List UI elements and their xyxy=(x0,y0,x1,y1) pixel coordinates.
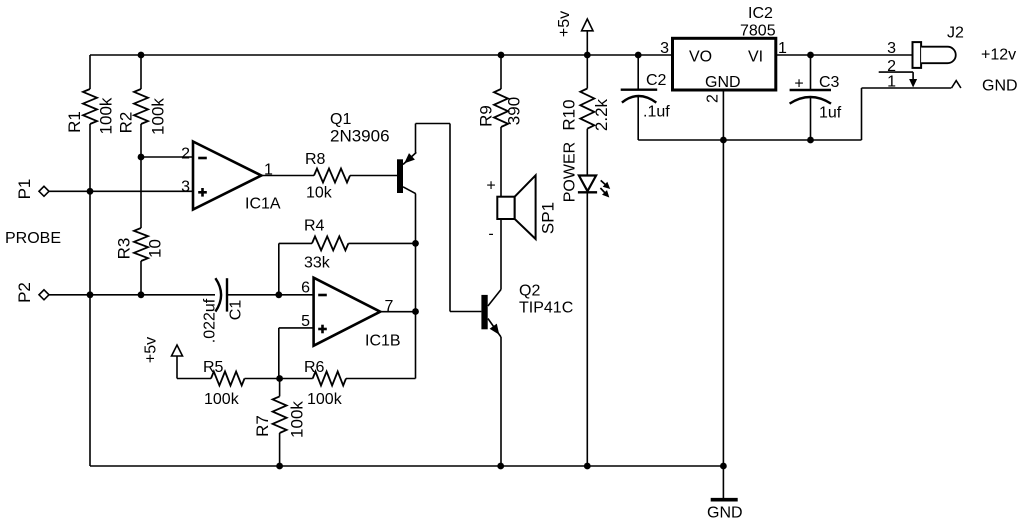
resistor R2 xyxy=(134,89,148,124)
transistor Q1 base bar xyxy=(397,159,403,193)
label 7805 xyxy=(740,23,776,40)
svg-text:C1: C1 xyxy=(228,300,245,321)
value 2.2k (R10) xyxy=(592,98,611,131)
svg-text:2.2k: 2.2k xyxy=(592,98,611,131)
pin GND label (IC2) xyxy=(705,74,741,91)
pin2 to pin1 arrow xyxy=(909,72,917,87)
wire P2 to C1 xyxy=(49,294,215,296)
capacitor C1 straight plate xyxy=(226,278,228,311)
svg-text:R2: R2 xyxy=(117,112,136,134)
label IC1A xyxy=(245,196,281,213)
pin 5 label (IC1B) xyxy=(301,313,310,330)
speaker SP1 horn xyxy=(515,175,536,239)
pin 3 label (J2) xyxy=(887,40,896,57)
wire R4 right lead xyxy=(348,242,415,244)
wire J2 pin1 drop xyxy=(861,88,863,140)
wire R8 to Q1 base xyxy=(350,175,397,177)
connector mate caret xyxy=(952,81,961,88)
label PROBE xyxy=(5,230,61,247)
connector P1 diamond xyxy=(39,186,49,196)
svg-text:2N3906: 2N3906 xyxy=(330,127,390,146)
label +12v xyxy=(981,47,1016,64)
wire P1 to IC1A pin3 xyxy=(49,190,193,192)
svg-text:6: 6 xyxy=(301,280,310,297)
transistor Q2 emitter xyxy=(488,319,501,338)
label R9 xyxy=(477,105,496,127)
transistor Q1 emitter xyxy=(403,152,416,164)
value .022uf (C1) xyxy=(202,298,219,343)
junction top rail C2 xyxy=(635,52,642,59)
wire R7 top lead xyxy=(279,379,281,397)
svg-text:R9: R9 xyxy=(477,105,496,127)
wire IC1A pin2 xyxy=(141,156,193,158)
wire R6 right lead xyxy=(346,378,416,380)
svg-text:R6: R6 xyxy=(304,359,325,376)
pin 6 label (IC1B) xyxy=(301,280,310,297)
svg-text:Q2: Q2 xyxy=(519,283,540,300)
junction LED/bottom rail xyxy=(584,463,591,470)
wire IC1B output xyxy=(380,311,415,313)
svg-text:33k: 33k xyxy=(304,255,331,272)
svg-text:P1: P1 xyxy=(15,179,34,200)
resistor R7 xyxy=(273,396,287,433)
junction R2/IC1A pin2 xyxy=(138,154,145,161)
junction P2/left rail xyxy=(87,291,94,298)
resistor R6 xyxy=(313,372,346,386)
LED emission arrow 2 xyxy=(600,188,609,198)
value 100k (R1) xyxy=(97,97,116,134)
svg-text:R1: R1 xyxy=(65,111,84,133)
junction top rail R10 xyxy=(584,52,591,59)
wire Q1 collector bus xyxy=(415,194,417,379)
wire Q2 emitter down xyxy=(500,337,502,466)
LED emission arrow 1 xyxy=(601,180,611,189)
svg-text:10: 10 xyxy=(146,239,165,258)
label POWER xyxy=(562,142,579,202)
wire left rail lower xyxy=(89,191,91,466)
wire IC1B pin5 xyxy=(279,327,314,329)
svg-text:GND: GND xyxy=(705,74,741,91)
label 2N3906 xyxy=(330,127,390,146)
pin 1 label (IC1A) xyxy=(264,162,273,179)
svg-text:Q1: Q1 xyxy=(330,111,351,128)
transistor Q2 base bar xyxy=(481,295,487,329)
svg-text:POWER: POWER xyxy=(562,142,579,202)
wire pin2 line xyxy=(879,71,913,73)
pin 3 label (IC2) xyxy=(660,40,669,57)
junction C3 top xyxy=(807,52,814,59)
label R2 xyxy=(117,112,136,134)
junction IC1B out/collector xyxy=(412,308,419,315)
svg-text:TIP41C: TIP41C xyxy=(519,300,573,317)
junction gnd/bottom rail xyxy=(720,463,727,470)
label R8 xyxy=(305,151,326,168)
svg-text:+5v: +5v xyxy=(143,337,160,363)
wire right gnd rail xyxy=(638,139,861,141)
svg-text:1uf: 1uf xyxy=(819,105,842,122)
pin 3 label (IC1A) xyxy=(181,179,190,196)
plus sign IC1A xyxy=(198,188,207,197)
pin 2 label (J2) xyxy=(887,58,896,75)
svg-text:C3: C3 xyxy=(819,74,840,91)
node P2 label xyxy=(15,282,34,303)
transistor Q2 collector xyxy=(488,290,501,307)
wire R9 top lead xyxy=(500,55,502,89)
label R1 xyxy=(65,111,84,133)
svg-text:IC1A: IC1A xyxy=(245,196,281,213)
transistor Q1 emitter arrow xyxy=(404,153,415,163)
wire R10 top lead xyxy=(586,55,588,89)
value 100k (R6) xyxy=(307,391,343,408)
wire loop top xyxy=(416,123,451,125)
wire bottom ground rail xyxy=(90,465,723,467)
wire R10 to LED xyxy=(586,129,588,176)
transistor Q2 emitter arrow xyxy=(490,324,500,335)
minus sign IC1A xyxy=(198,157,207,160)
svg-text:SP1: SP1 xyxy=(539,202,558,234)
junction GND pin/gnd rail xyxy=(720,137,727,144)
value .1uf (C2) xyxy=(643,104,670,121)
pin VO label xyxy=(689,49,712,66)
wire C2 bottom lead xyxy=(637,97,639,141)
junction P1/left rail xyxy=(87,188,94,195)
wire gnd drop xyxy=(722,140,724,466)
svg-text:J2: J2 xyxy=(947,25,964,42)
svg-text:3: 3 xyxy=(660,40,669,57)
svg-text:GND: GND xyxy=(707,505,743,522)
resistor R4 xyxy=(312,236,348,250)
capacitor C3 straight plate xyxy=(790,89,831,91)
wire R7 bottom lead xyxy=(279,433,281,466)
resistor R3 xyxy=(134,228,148,261)
svg-text:+5v: +5v xyxy=(556,11,573,37)
label R6 xyxy=(304,359,325,376)
wire R5 to R6 xyxy=(245,378,313,380)
junction R7/bottom rail xyxy=(276,463,283,470)
svg-text:R7: R7 xyxy=(253,415,272,437)
pin VI label xyxy=(748,49,763,66)
transistor Q1 collector xyxy=(403,187,416,194)
label R3 xyxy=(115,238,134,260)
svg-text:R3: R3 xyxy=(115,238,134,260)
wire Q1 emitter up xyxy=(415,124,417,153)
wire IC1A output to R8 xyxy=(261,175,314,177)
speaker minus label xyxy=(488,226,493,243)
svg-text:R4: R4 xyxy=(304,218,325,235)
wire to gnd symbol xyxy=(722,466,724,498)
value 100k (R7) xyxy=(288,401,307,438)
svg-text:390: 390 xyxy=(505,97,524,125)
wire R4 branch vertical xyxy=(278,243,280,294)
junction R4/collector xyxy=(412,240,419,247)
svg-text:-: - xyxy=(488,226,493,243)
wire pin1 line xyxy=(862,87,952,89)
junction Q2 emitter/bottom rail xyxy=(497,463,504,470)
wire C3 bottom lead xyxy=(810,98,812,141)
op-amp IC1B triangle xyxy=(314,278,381,346)
LED cathode bar xyxy=(578,191,597,193)
svg-text:100k: 100k xyxy=(307,391,343,408)
label R4 xyxy=(304,218,325,235)
wire LED to bottom rail xyxy=(586,192,588,466)
pin 1 label (IC2) xyxy=(778,40,787,57)
svg-text:.022uf: .022uf xyxy=(202,298,219,343)
wire IC2 GND pin xyxy=(722,90,724,140)
node P1 label xyxy=(15,179,34,200)
label R10 xyxy=(560,99,579,130)
svg-text:+12v: +12v xyxy=(981,47,1016,64)
label Q1 xyxy=(330,111,351,128)
svg-text:100k: 100k xyxy=(288,401,307,438)
junction top rail R2 xyxy=(138,52,145,59)
wire R4 left lead xyxy=(279,242,312,244)
wire R2 branch xyxy=(140,55,142,295)
resistor R1 xyxy=(83,89,97,124)
svg-text:VO: VO xyxy=(689,49,712,66)
junction C1/R4 branch xyxy=(275,291,282,298)
wire IC2 VI to C3 xyxy=(776,54,913,56)
wire left rail upper (R1 leads) xyxy=(89,55,91,191)
resistor R10 xyxy=(580,89,594,129)
plus sign IC1B xyxy=(318,325,327,334)
capacitor C1 curved plate xyxy=(215,278,221,311)
junction P2/R3 xyxy=(138,291,145,298)
label J2 xyxy=(947,25,964,42)
power +5v arrow (left) xyxy=(172,345,183,379)
value 1uf (C3) xyxy=(819,105,842,122)
svg-text:IC2: IC2 xyxy=(748,5,773,22)
wire C3 top lead xyxy=(810,55,812,90)
ground symbol bar xyxy=(711,498,738,502)
svg-text:2: 2 xyxy=(181,146,190,163)
svg-text:PROBE: PROBE xyxy=(5,230,61,247)
svg-text:P2: P2 xyxy=(15,282,34,303)
svg-text:R10: R10 xyxy=(560,99,579,130)
wire top +5v rail xyxy=(90,54,673,56)
pin 7 label (IC1B) xyxy=(385,298,394,315)
junction top rail R9 xyxy=(498,52,505,59)
IC2 box xyxy=(673,38,776,90)
value 10 (R3) xyxy=(146,239,165,258)
svg-text:C2: C2 xyxy=(646,72,667,89)
minus sign IC1B xyxy=(318,294,327,297)
wire speaker to Q2 collector xyxy=(500,219,502,290)
label GND (J2) xyxy=(982,78,1018,95)
svg-text:R8: R8 xyxy=(305,151,326,168)
wire loop down to Q2 base xyxy=(449,124,451,312)
wire to Q2 base xyxy=(450,311,481,313)
label C3 xyxy=(819,74,840,91)
wire +5v to R5 xyxy=(177,378,211,380)
label R7 xyxy=(253,415,272,437)
label IC1B xyxy=(365,333,401,350)
junction R5/R6/R7 xyxy=(276,375,283,382)
svg-text:100k: 100k xyxy=(149,98,168,135)
svg-text:+: + xyxy=(486,178,495,195)
svg-text:.1uf: .1uf xyxy=(643,104,670,121)
power +5v arrow (top) xyxy=(582,19,593,55)
svg-text:100k: 100k xyxy=(204,391,240,408)
label SP1 xyxy=(539,202,558,234)
connector P2 diamond xyxy=(39,290,49,300)
LED D1 triangle xyxy=(579,176,596,192)
value 390 (R9) xyxy=(505,97,524,125)
value 100k (R2) xyxy=(149,98,168,135)
value 33k (R4) xyxy=(304,255,331,272)
resistor R9 xyxy=(494,89,508,127)
value 10k (R8) xyxy=(306,185,333,202)
op-amp IC1A triangle xyxy=(193,142,261,210)
label GND (bottom) xyxy=(707,505,743,522)
connector J2 plug xyxy=(921,47,956,64)
resistor R8 xyxy=(314,169,350,183)
label C1 xyxy=(228,300,245,321)
wire C1 to IC1B pin6 xyxy=(227,294,314,296)
pin 2 label (IC2) xyxy=(705,94,722,103)
capacitor C2 straight plate xyxy=(621,88,658,90)
svg-text:3: 3 xyxy=(887,40,896,57)
svg-text:IC1B: IC1B xyxy=(365,333,401,350)
svg-text:3: 3 xyxy=(181,179,190,196)
value 100k (R5) xyxy=(204,391,240,408)
svg-text:R5: R5 xyxy=(203,359,224,376)
svg-text:2: 2 xyxy=(705,94,722,103)
svg-text:10k: 10k xyxy=(306,185,333,202)
capacitor C2 curved plate xyxy=(622,96,656,103)
wire R9 to speaker xyxy=(500,127,502,197)
power +5v label (top) xyxy=(556,11,573,37)
wire C2 top lead xyxy=(637,55,639,90)
label TIP41C xyxy=(519,300,573,317)
label Q2 xyxy=(519,283,540,300)
pin 2 label (IC1A) xyxy=(181,146,190,163)
wire pin5 branch xyxy=(278,328,280,379)
speaker SP1 box xyxy=(497,197,514,219)
speaker plus label xyxy=(486,178,495,195)
junction C3 bottom xyxy=(807,137,814,144)
svg-text:VI: VI xyxy=(748,49,763,66)
label R5 xyxy=(203,359,224,376)
svg-text:GND: GND xyxy=(982,78,1018,95)
resistor R5 xyxy=(211,372,245,386)
pin 1 label (J2) xyxy=(887,74,896,91)
label IC2 xyxy=(748,5,773,22)
connector J2 body xyxy=(913,42,922,68)
label C2 xyxy=(646,72,667,89)
power +5v label (left) xyxy=(143,337,160,363)
svg-text:100k: 100k xyxy=(97,97,116,134)
plus sign C3 xyxy=(794,76,803,93)
capacitor C3 curved plate xyxy=(790,97,831,104)
